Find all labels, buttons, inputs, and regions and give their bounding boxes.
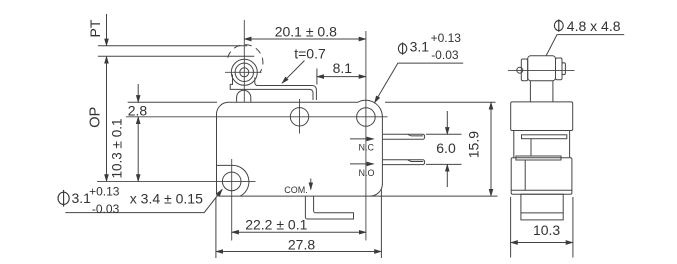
svg-text:27.8: 27.8: [288, 236, 315, 252]
side body top section: [511, 102, 573, 131]
roller centerline vertical / 20.1 extension: [243, 20, 245, 102]
roller centerline horizontal: [225, 71, 262, 73]
left view: switch body outline: [217, 100, 383, 196]
side body mid section: [514, 131, 570, 158]
dim 10.3 line: [511, 242, 573, 244]
dim 22.2 line: [232, 231, 366, 233]
roller outer circle: [231, 59, 257, 85]
dim 6.0 extension top: [426, 133, 462, 135]
bottom-left mounting hole: [222, 172, 241, 191]
lever arm top edge: [255, 78, 317, 101]
side body lower section: [511, 158, 572, 195]
dim 8.1 extension bar: [316, 69, 318, 85]
N.C pointer arrow: [350, 138, 374, 140]
svg-text:N.O: N.O: [359, 168, 375, 178]
10.3 dimension line: [137, 117, 139, 182]
svg-text:8.1: 8.1: [333, 60, 353, 76]
roller middle circle: [235, 63, 253, 81]
svg-text:22.2 ± 0.1: 22.2 ± 0.1: [245, 217, 307, 233]
side roller centerline: [508, 69, 575, 71]
side roller body: [528, 56, 556, 81]
roller free-position dashed circle: [227, 45, 263, 73]
svg-text:-0.03: -0.03: [431, 48, 459, 62]
N.O pointer arrow: [350, 163, 374, 165]
PT upper arrow: [106, 14, 108, 46]
terminal N.C blade: [383, 134, 425, 139]
side body base line: [511, 189, 572, 191]
svg-text:-0.03: -0.03: [92, 202, 120, 216]
svg-text:+0.13: +0.13: [89, 185, 120, 199]
side roller pin circle: [517, 67, 523, 73]
lever arm bottom edge + holder: [230, 75, 313, 101]
side roller right bump: [562, 63, 565, 75]
drawn phi glyphs: [58, 19, 563, 206]
svg-text:PT: PT: [87, 19, 103, 37]
phi3.1 top label leader: [375, 63, 464, 103]
svg-text:t=0.7: t=0.7: [294, 46, 326, 62]
svg-text:OP: OP: [88, 107, 104, 128]
dim 27.8 extension left: [215, 198, 217, 259]
bottom-left hole centerline vertical: [231, 159, 233, 241]
2.8 top arrow: [137, 84, 139, 102]
terminal N.O blade: [383, 160, 425, 165]
center hole: [290, 108, 308, 126]
plunger dome: [237, 90, 251, 102]
side COM block inner line: [521, 212, 563, 214]
center hole centerline vertical: [299, 99, 301, 134]
side roller right flange: [556, 58, 563, 80]
N.O blade slot: [408, 160, 423, 162]
side inner vertical line upper: [530, 139, 532, 156]
phi glyph of label phi3.1 top: [398, 44, 406, 54]
bottom-left mounting ear: [217, 165, 249, 196]
dim 8.1 line: [317, 76, 366, 78]
side N.O blade edge: [516, 156, 561, 160]
svg-text:20.1 ± 0.8: 20.1 ± 0.8: [275, 23, 337, 39]
COM pointer arrow: [310, 179, 312, 190]
phi4.8 leader: [546, 35, 624, 56]
free position line: [98, 45, 247, 47]
bottom-left hole centerline horizontal: [97, 180, 256, 182]
svg-text:N.C: N.C: [359, 143, 375, 153]
svg-text:10.3: 10.3: [533, 222, 560, 238]
svg-text:10.3 ± 0.1: 10.3 ± 0.1: [110, 119, 125, 179]
dim 27.8 line: [216, 251, 382, 253]
svg-text:4.8 x 4.8: 4.8 x 4.8: [567, 18, 621, 34]
top-right hole centerline vertical: [365, 31, 367, 241]
svg-text:6.0: 6.0: [436, 140, 456, 156]
svg-text:2.8: 2.8: [128, 103, 148, 119]
t=0.7 leader: [282, 61, 305, 84]
side stem: [530, 81, 553, 102]
phi glyph of label phi3.1 bottom-left: [58, 192, 69, 204]
svg-text:15.9: 15.9: [466, 131, 482, 158]
side COM block: [521, 194, 563, 220]
dim 10.3 extensions: [510, 197, 512, 258]
dim 6.0 bottom arrow: [446, 164, 448, 187]
dim 15.9 line: [490, 102, 492, 196]
svg-text:x 3.4 ± 0.15: x 3.4 ± 0.15: [130, 191, 203, 207]
dim 15.9 extension bottom: [370, 195, 498, 197]
body top extension line left: [128, 101, 217, 103]
phi glyph of label phi4.8: [554, 21, 563, 31]
dim 6.0 extension bottom: [426, 163, 462, 165]
holes centerline horizontal: [126, 116, 388, 118]
PT/OP dimension line: [106, 56, 108, 181]
svg-text:COM.: COM.: [284, 185, 308, 195]
side inner vertical line lower: [524, 160, 526, 190]
dim 20.1 line: [244, 38, 366, 40]
phi3.1 bottom-left label leader: [65, 189, 222, 212]
N.C blade slot: [408, 134, 423, 136]
top-right mounting hole: [357, 108, 376, 127]
operating position line: [98, 55, 254, 57]
dim 15.9 extension top: [385, 101, 496, 103]
roller pin circle: [240, 68, 249, 77]
COM terminal: [305, 196, 353, 219]
PT lower segment extension: [106, 61, 108, 79]
svg-text:3.1: 3.1: [410, 38, 430, 54]
svg-text:+0.13: +0.13: [431, 31, 462, 45]
side roller left flange: [521, 59, 527, 81]
side N.C blade edge: [522, 135, 567, 139]
dim 27.8 extension right: [380, 189, 382, 258]
dim 6.0 top arrow: [446, 111, 448, 134]
